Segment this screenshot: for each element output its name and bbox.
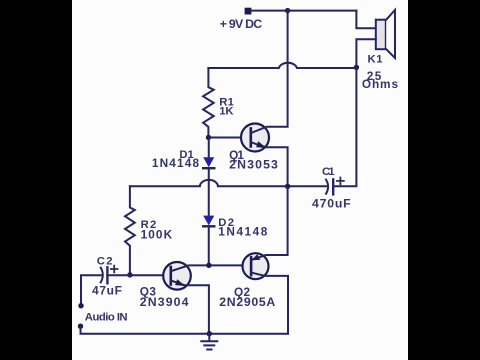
- svg-text:1N4148: 1N4148: [152, 156, 200, 170]
- node Q1 base / R1 / D1: [206, 135, 211, 140]
- speaker K1 frame: [376, 20, 386, 50]
- svg-text:100K: 100K: [141, 227, 173, 241]
- resistor R2: [125, 186, 135, 275]
- diode D1 lead from node: [208, 138, 210, 158]
- diode D2 triangle: [203, 216, 214, 226]
- input terminal dot: [78, 303, 83, 308]
- svg-text:470uF: 470uF: [312, 196, 351, 210]
- transistor Q1 body: [241, 124, 269, 152]
- +9V DC terminal: [245, 8, 252, 15]
- capacitor C2 straight plate: [106, 267, 108, 283]
- svg-text:C2: C2: [97, 256, 113, 268]
- capacitor C2 curved plate: [101, 268, 103, 283]
- wire ground rail: [81, 326, 289, 334]
- diode D2 cathode bar: [203, 225, 214, 227]
- junction speaker / R1-top / C1: [354, 65, 359, 70]
- node +9V junction: [285, 8, 290, 13]
- ground symbol: [201, 334, 217, 350]
- svg-text:C1: C1: [322, 166, 335, 178]
- svg-text:Ohms: Ohms: [362, 77, 399, 91]
- diode D1 triangle: [203, 157, 214, 167]
- wire D1 cathode to D2 anode: [208, 168, 210, 215]
- wire C2 to Q3 base: [107, 274, 170, 276]
- Q3 emitter arrowhead: [175, 279, 185, 286]
- svg-text:+ 9V DC: + 9V DC: [220, 17, 263, 31]
- wire output node to C1 minus plate: [288, 185, 328, 187]
- wire +9V rail: [251, 10, 356, 12]
- wire speaker bottom to junction: [356, 39, 375, 67]
- wire Q1 base lead: [209, 137, 251, 139]
- svg-text:Audio IN: Audio IN: [85, 312, 128, 324]
- wire audio input up to C2: [81, 275, 102, 305]
- svg-text:2N2905A: 2N2905A: [219, 295, 275, 309]
- svg-text:2N3904: 2N3904: [140, 295, 189, 309]
- capacitor C2 plus sign: [111, 266, 118, 273]
- wire Q3 emitter to ground: [172, 281, 209, 334]
- junction ground: [207, 331, 212, 336]
- wire Q2 emitter to output node: [252, 186, 288, 259]
- wire output rail with hop over diode chain: [130, 180, 288, 186]
- wire Q1 collector to +9V node: [252, 11, 288, 133]
- speaker K1 cone: [386, 10, 395, 58]
- svg-text:K1: K1: [368, 54, 383, 66]
- wire Q1 emitter to output node: [252, 143, 288, 187]
- transistor Q1 base bar: [250, 129, 253, 147]
- transistor Q3 base bar: [170, 267, 173, 285]
- wire +9V down to speaker top: [356, 11, 375, 29]
- svg-text:1N4148: 1N4148: [218, 225, 267, 239]
- wire junction down to C1 plus plate: [333, 67, 356, 186]
- svg-text:1K: 1K: [219, 106, 234, 118]
- transistor Q2 body: [243, 253, 269, 279]
- wire D2 cathode to node E: [208, 226, 210, 265]
- capacitor C1 plus sign: [337, 178, 344, 185]
- wire Q2 collector to ground rail: [252, 273, 288, 334]
- diode D1 cathode bar: [203, 167, 214, 169]
- svg-text:2N3053: 2N3053: [229, 158, 278, 172]
- Q1 emitter arrowhead: [256, 141, 266, 148]
- Q2 emitter arrowhead (PNP, pointing into base): [252, 254, 261, 260]
- wire R1 top to speaker junction with hop over collector line: [208, 63, 356, 68]
- svg-text:47uF: 47uF: [92, 283, 122, 297]
- node E D2 / Q3 collector / Q2 base: [206, 263, 211, 268]
- transistor Q3 body: [163, 262, 191, 290]
- capacitor C1 straight plate: [332, 179, 334, 194]
- ground terminal dot (audio in return): [78, 324, 83, 329]
- resistor R1: [203, 68, 214, 138]
- wire Q3 collector to node E and Q2 base: [172, 265, 251, 271]
- capacitor C1 curved plate: [326, 180, 328, 194]
- node Q3 base / R2 / C2: [127, 272, 132, 277]
- transistor Q2 base bar: [250, 257, 253, 275]
- node output: [285, 184, 290, 189]
